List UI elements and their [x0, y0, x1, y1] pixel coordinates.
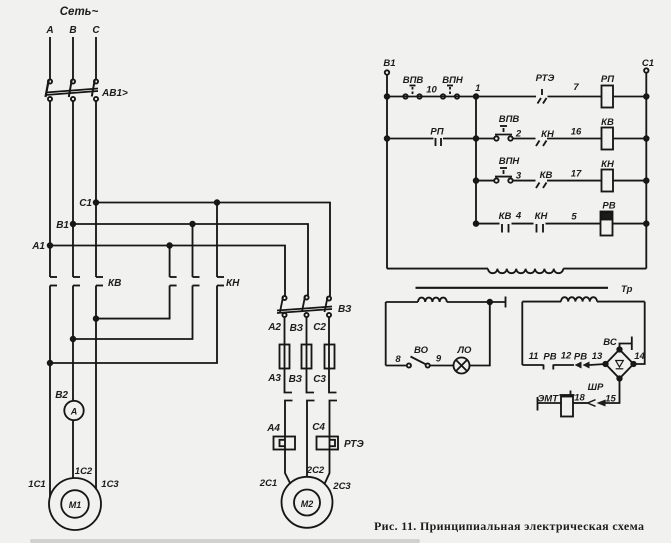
svg-text:ВПН: ВПН [442, 75, 464, 86]
contact KN NO row4 [537, 224, 544, 233]
wire right rail [645, 73, 647, 269]
svg-text:РВ: РВ [543, 352, 556, 363]
junction right rail row1 [644, 94, 649, 99]
svg-text:КН: КН [541, 129, 555, 140]
svg-text:ВЗ: ВЗ [338, 304, 352, 315]
relay coil KN [602, 170, 614, 192]
wire C3 with break [329, 369, 337, 393]
wire cross A to KN3 [50, 286, 217, 364]
wire KN pole2 upper [192, 224, 194, 277]
wire bottom row to RV contact [522, 364, 543, 366]
svg-text:В: В [69, 25, 76, 36]
svg-text:РП: РП [430, 127, 443, 138]
button VPN start [494, 168, 513, 183]
svg-text:16: 16 [571, 127, 582, 138]
svg-text:ЛО: ЛО [457, 345, 473, 356]
wire row2 [387, 138, 646, 140]
wire B3 mid [306, 317, 308, 345]
svg-text:9: 9 [436, 354, 442, 365]
svg-text:8: 8 [395, 354, 401, 365]
wire bridge bottom to EMT row [606, 379, 620, 404]
svg-text:РВ: РВ [574, 352, 587, 363]
wire KN pole1 upper [169, 246, 171, 278]
svg-text:2С1: 2С1 [259, 478, 277, 489]
junction right rail row2 [644, 136, 649, 141]
rectifier bridge VS [603, 347, 635, 380]
wire phase B vertical [72, 101, 74, 277]
relay coil KV [602, 128, 614, 150]
wire cross C to KN1 [96, 286, 170, 319]
svg-text:2С2: 2С2 [306, 465, 325, 476]
svg-text:М1: М1 [69, 500, 82, 510]
svg-text:С2: С2 [313, 322, 326, 333]
junction dot KN pole3 top [215, 200, 220, 205]
svg-text:КН: КН [601, 159, 615, 170]
wire phase B lower with junction [72, 286, 74, 402]
svg-text:С4: С4 [312, 422, 325, 433]
motor M2 [282, 477, 333, 528]
svg-text:ВПН: ВПН [499, 156, 521, 167]
wire phase C vertical [95, 101, 97, 277]
wire rect loop right [634, 302, 645, 364]
rectifier circuit secondary winding [522, 297, 644, 301]
svg-text:А4: А4 [266, 423, 280, 434]
switch VO [407, 357, 430, 368]
switch VZ (В3) [277, 295, 332, 317]
svg-text:12: 12 [561, 351, 572, 362]
svg-text:М2: М2 [301, 499, 314, 509]
svg-text:КН: КН [535, 211, 549, 222]
svg-text:7: 7 [573, 82, 579, 93]
svg-text:14: 14 [634, 351, 645, 362]
svg-text:ВС: ВС [603, 337, 617, 348]
wire phase B top [72, 37, 74, 79]
junction dot KN pole1 top [167, 243, 172, 248]
wire switch to lamp [430, 365, 454, 367]
wire row1 [387, 96, 646, 98]
svg-text:15: 15 [605, 394, 616, 405]
wire control bottom with transformer primary [387, 269, 646, 274]
wire cross B to KN2 [73, 286, 193, 340]
fuse B [302, 345, 312, 369]
svg-text:КВ: КВ [108, 278, 121, 289]
plug connector ShR arrows [588, 400, 606, 407]
wire rect loop left [521, 302, 523, 365]
svg-text:2С3: 2С3 [332, 481, 351, 492]
solenoid EMT [560, 391, 575, 417]
svg-text:17: 17 [571, 169, 582, 180]
contact RP NO [436, 138, 442, 146]
wire C2 [328, 317, 330, 345]
contact RV 1 [544, 365, 575, 370]
junction node1 row3 [474, 178, 479, 183]
node B1 [71, 222, 76, 227]
relay coil RV [601, 212, 613, 236]
svg-text:КВ: КВ [601, 117, 614, 128]
svg-text:13: 13 [592, 351, 603, 362]
wire C4 to motor [325, 450, 330, 485]
svg-text:РП: РП [601, 74, 614, 85]
junction right rail row3 [644, 178, 649, 183]
node C1 [94, 200, 99, 205]
svg-text:КВ: КВ [540, 170, 553, 181]
svg-text:В1: В1 [383, 58, 395, 69]
svg-text:А: А [45, 25, 53, 36]
svg-text:1С2: 1С2 [75, 466, 93, 477]
wire node1 vertical [475, 97, 477, 224]
svg-text:Сеть~: Сеть~ [60, 6, 99, 18]
svg-text:В1: В1 [56, 220, 69, 231]
wire left rail [386, 75, 388, 269]
motor M1 [49, 478, 101, 530]
wire arrows to EMT [573, 402, 588, 404]
wire lamp bottom left [386, 365, 407, 367]
svg-text:КВ: КВ [499, 211, 512, 222]
switch AB1 [46, 79, 99, 101]
svg-text:1: 1 [475, 83, 480, 94]
svg-text:РВ: РВ [602, 201, 615, 212]
wire A3 with break [285, 369, 293, 393]
wire ammeter to motor M1 [72, 420, 74, 478]
wire row3 [476, 180, 646, 182]
junction dot KN pole2 top [190, 222, 195, 227]
terminal bar EMT [537, 397, 539, 411]
wire A2 [284, 317, 286, 345]
contactor KN main contacts [170, 277, 224, 286]
relay coil RP [602, 86, 614, 108]
thermal element RTE-A [274, 437, 296, 450]
svg-text:А: А [70, 407, 78, 417]
wire phase A lower with junction [49, 286, 51, 498]
contactor KV main contacts [50, 277, 103, 286]
wire lamp loop right [470, 302, 490, 366]
wire lamp loop left [385, 302, 387, 366]
svg-text:2: 2 [515, 129, 522, 140]
wire KN pole3 upper [216, 203, 218, 278]
lamp LO [454, 358, 470, 374]
svg-text:ВО: ВО [414, 345, 429, 356]
thermal element RTE-C [317, 437, 339, 450]
svg-text:1С1: 1С1 [28, 479, 45, 490]
button VPV stop [403, 86, 421, 99]
fuse A [280, 345, 290, 369]
contact KV NC row3 [536, 183, 547, 189]
svg-text:ВЗ: ВЗ [289, 374, 303, 385]
svg-text:А3: А3 [267, 373, 281, 384]
scan smudge bottom [30, 539, 420, 543]
wire phase A vertical [49, 101, 51, 277]
svg-text:1С3: 1С3 [101, 479, 119, 490]
svg-text:РТЭ: РТЭ [536, 73, 555, 84]
svg-text:ВПВ: ВПВ [499, 114, 520, 125]
svg-text:С1: С1 [642, 58, 654, 69]
svg-text:11: 11 [529, 351, 539, 362]
svg-text:18: 18 [574, 393, 585, 404]
wire A1 to M2 branch [50, 246, 285, 297]
svg-text:10: 10 [426, 85, 437, 96]
junction left rail row1 [385, 94, 390, 99]
button VPN stop [441, 86, 459, 99]
lamp circuit secondary winding [386, 298, 506, 302]
wire phase C lower with junction [95, 286, 97, 490]
svg-text:С1: С1 [79, 198, 92, 209]
svg-text:В2: В2 [55, 390, 68, 401]
wire to bridge [590, 364, 606, 365]
svg-text:РТЭ: РТЭ [344, 439, 365, 450]
contact RV 2 timed [575, 362, 590, 369]
wire C1 to M2 branch [96, 203, 330, 297]
junction right rail row4 [644, 221, 649, 226]
svg-text:ВЗ: ВЗ [290, 323, 304, 334]
wire row4 [476, 223, 646, 225]
svg-text:С3: С3 [313, 374, 326, 385]
svg-text:А1: А1 [31, 241, 45, 252]
terminal bar VS tap [631, 337, 633, 351]
svg-text:4: 4 [515, 211, 522, 222]
svg-text:ВПВ: ВПВ [403, 75, 424, 86]
svg-text:А2: А2 [267, 322, 281, 333]
transformer core [416, 287, 609, 289]
junction left rail row2 [385, 136, 390, 141]
junction node1 row4 [474, 221, 479, 226]
node 1 [474, 94, 479, 99]
contact KN NC row2 [536, 141, 547, 147]
contact KV NO row4 [502, 224, 509, 233]
wire B3 with break [307, 369, 315, 393]
junction node1 row2 [474, 136, 479, 141]
svg-text:Тр: Тр [621, 284, 633, 295]
svg-text:С: С [92, 25, 100, 36]
wire phase C top [95, 37, 97, 79]
ammeter A [64, 401, 83, 420]
wire bridge top tap [620, 344, 632, 350]
svg-text:Рис. 11. Принципиальная электр: Рис. 11. Принципиальная электрическая сх… [374, 519, 644, 533]
wire phase A top [49, 37, 51, 79]
contact RTE NC [538, 89, 547, 104]
wire B1 to M2 branch [73, 224, 308, 296]
svg-text:3: 3 [516, 171, 522, 182]
svg-text:АВ1>: АВ1> [101, 88, 128, 99]
fuse C [325, 345, 335, 369]
wire A4 to motor [285, 450, 291, 485]
svg-text:5: 5 [571, 212, 577, 223]
junction lamp loop top [488, 300, 493, 305]
node A1 [48, 243, 53, 248]
wire EMT to terminal [538, 402, 562, 404]
svg-text:КН: КН [226, 278, 240, 289]
terminal bar lamp winding [505, 297, 507, 308]
button VPV start [494, 126, 513, 141]
svg-text:ШР: ШР [588, 382, 604, 393]
